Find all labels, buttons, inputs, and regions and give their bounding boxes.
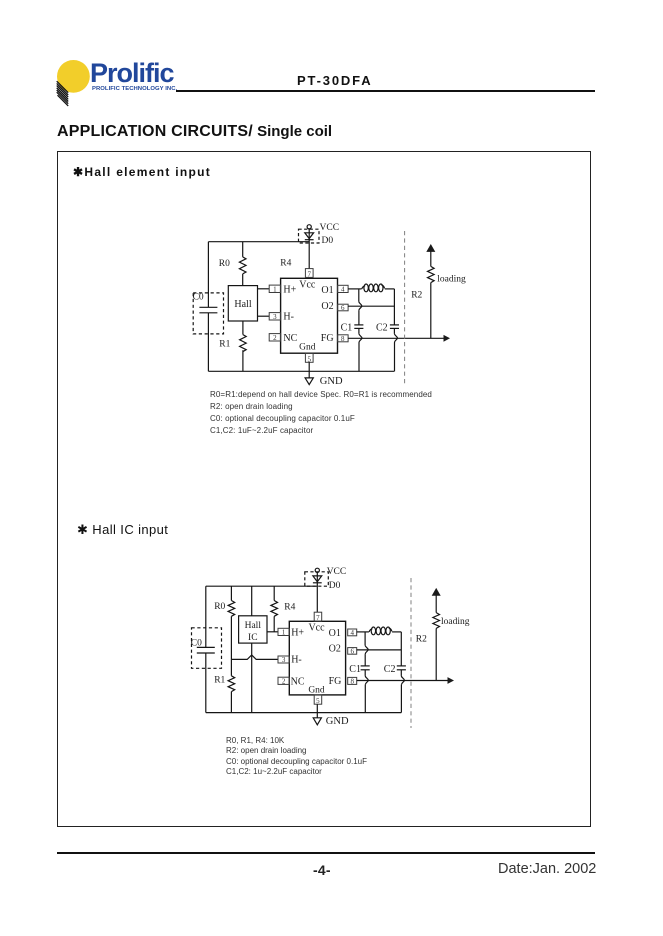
svg-text:NC: NC: [291, 677, 305, 688]
wire inductor to C2 node c2: [392, 631, 401, 633]
svg-text:R4: R4: [280, 259, 291, 269]
svg-text:1: 1: [282, 629, 286, 637]
diode D0: [299, 229, 334, 269]
svg-text:Gnd: Gnd: [308, 685, 325, 695]
svg-text:VCC: VCC: [320, 223, 340, 233]
svg-text:loading: loading: [441, 617, 470, 627]
svg-text:C0: C0: [193, 292, 204, 302]
capacitor C1: [341, 289, 364, 371]
svg-text:GND: GND: [326, 716, 349, 727]
page title: [57, 123, 332, 141]
pin 3: [269, 313, 280, 322]
svg-text:4: 4: [350, 629, 354, 637]
svg-text:FG: FG: [329, 676, 342, 687]
svg-text:7: 7: [316, 614, 320, 622]
section label: Hall element input: [73, 165, 211, 179]
svg-text:Gnd: Gnd: [299, 343, 316, 353]
capacitor C2: [376, 289, 399, 371]
svg-text:O2: O2: [329, 643, 341, 654]
svg-text:6: 6: [350, 647, 354, 655]
pin 4 c2: [348, 629, 357, 637]
svg-text:3: 3: [273, 313, 277, 321]
node VCC (circuit 2): [315, 567, 346, 577]
svg-text:C2: C2: [384, 664, 396, 675]
svg-text:R1: R1: [219, 339, 230, 349]
wire bottom rail c2: [206, 712, 401, 714]
logo Prolific: [48, 52, 188, 116]
wire pin4 to inductor c2: [357, 631, 369, 633]
svg-text:Hall: Hall: [234, 299, 251, 310]
gnd c2: [313, 704, 349, 727]
svg-text:R4: R4: [284, 603, 295, 613]
resistor R4 (circuit 2): [271, 586, 296, 632]
pin 1 c2: [278, 628, 289, 636]
svg-text:8: 8: [350, 678, 354, 686]
svg-text:FG: FG: [321, 333, 334, 344]
dashed boundary (circuit 2): [410, 578, 412, 728]
svg-text:5: 5: [316, 697, 320, 705]
gnd c1: [305, 362, 343, 387]
wire H+: [267, 631, 278, 633]
capacitor C0: [193, 292, 224, 334]
resistor R2 loading (circuit 2): [432, 588, 470, 681]
svg-text:C2: C2: [376, 323, 388, 334]
svg-text:H-: H-: [291, 654, 302, 665]
footer page number: [313, 862, 331, 878]
capacitor C2 (circuit 2): [384, 632, 406, 713]
svg-text:H-: H-: [283, 311, 294, 322]
IC U2: [289, 621, 345, 695]
svg-text:O1: O1: [329, 628, 341, 639]
wire FG output: [348, 335, 450, 342]
svg-text:2: 2: [282, 678, 286, 686]
footer date: [498, 861, 596, 877]
svg-text:7: 7: [307, 270, 311, 278]
pin 4: [338, 285, 349, 293]
wire hallic bottom: [251, 643, 253, 713]
svg-text:R1: R1: [214, 675, 225, 685]
pin 1: [269, 285, 280, 294]
pin 5 c2: [314, 695, 322, 705]
svg-text:3: 3: [282, 656, 286, 664]
svg-text:C0: C0: [191, 638, 202, 648]
svg-text:R0: R0: [219, 259, 230, 269]
svg-text:D0: D0: [329, 581, 341, 591]
resistor R1 (circuit 2): [214, 659, 235, 712]
svg-text:5: 5: [307, 355, 311, 363]
wire O2 c2: [357, 649, 402, 651]
inductor L1: [362, 284, 385, 292]
wire inductor to C2 node: [385, 288, 395, 290]
svg-text:Hall: Hall: [245, 621, 262, 631]
IC U2 labels: [291, 622, 342, 695]
notes circuit 1: [210, 389, 432, 437]
resistor R2 loading (circuit 1): [426, 244, 466, 338]
svg-text:C1: C1: [341, 323, 353, 334]
node VCC (circuit 1): [307, 223, 339, 233]
capacitor C1 (circuit 2): [349, 632, 369, 713]
wire bottom rail c1: [208, 370, 394, 372]
hall element box: [228, 286, 257, 321]
pin 6 c2: [348, 647, 357, 655]
svg-text:O2: O2: [321, 301, 333, 312]
svg-text:H+: H+: [291, 628, 304, 639]
section label: Hall IC input: [77, 522, 168, 538]
svg-text:1: 1: [273, 286, 277, 294]
footer rule: [57, 852, 595, 855]
pin 7: [305, 269, 313, 279]
svg-text:C1: C1: [349, 664, 361, 675]
inductor L2: [369, 627, 392, 635]
wire top rail c1: [208, 241, 309, 243]
pin 8: [338, 335, 349, 343]
resistor R0: [219, 242, 246, 286]
wire FG output c2: [357, 677, 454, 684]
capacitor C0 (circuit 2): [191, 628, 222, 669]
pin 2 c2: [278, 677, 289, 685]
IC U1 labels: [283, 280, 333, 353]
resistor R0 (circuit 2): [214, 586, 235, 659]
header part number: [297, 73, 372, 88]
pin 7 c2: [314, 612, 322, 622]
header rule: [176, 90, 595, 92]
hall IC box: [239, 616, 267, 643]
resistor R1: [219, 321, 246, 371]
svg-text:8: 8: [341, 335, 345, 343]
pin 6: [338, 304, 349, 312]
svg-text:6: 6: [341, 304, 345, 312]
wire hall to pin3: [258, 315, 270, 317]
svg-text:D0: D0: [322, 236, 334, 246]
svg-text:R0: R0: [214, 602, 225, 612]
wire left rail c1: [207, 242, 209, 372]
dashed boundary (circuit 1): [404, 231, 406, 384]
svg-text:Vcc: Vcc: [299, 280, 316, 291]
pin 3 c2: [278, 656, 289, 664]
svg-text:loading: loading: [437, 274, 466, 284]
svg-text:H+: H+: [283, 284, 296, 295]
wire hall to pin1: [258, 288, 270, 290]
svg-text:2: 2: [273, 334, 277, 342]
svg-text:R2: R2: [416, 635, 427, 645]
notes circuit 2: [226, 736, 367, 778]
svg-text:VCC: VCC: [327, 567, 347, 577]
main frame box: [57, 151, 591, 827]
wire top rail c2: [206, 585, 317, 587]
wire pin4 to inductor: [348, 288, 362, 290]
pin 8 c2: [348, 677, 357, 685]
wire left rail c2: [205, 586, 207, 712]
svg-text:R2: R2: [411, 290, 422, 300]
wire H- with hop: [231, 655, 278, 659]
diode D0 (circuit 2): [305, 572, 341, 612]
wire hallic top: [251, 586, 253, 616]
pin 5: [305, 353, 313, 363]
logo wordmark: [90, 58, 174, 89]
svg-text:Vcc: Vcc: [308, 622, 325, 633]
svg-text:NC: NC: [283, 333, 297, 344]
IC U1: [281, 278, 338, 353]
pin 2: [269, 334, 280, 343]
svg-text:4: 4: [341, 286, 345, 294]
svg-text:IC: IC: [248, 633, 258, 643]
wire O2: [348, 305, 394, 307]
svg-text:O1: O1: [321, 285, 333, 296]
svg-text:GND: GND: [320, 376, 343, 387]
